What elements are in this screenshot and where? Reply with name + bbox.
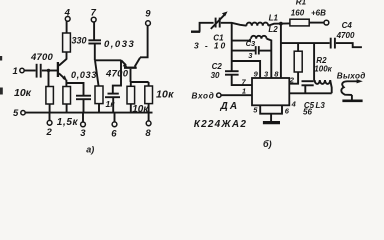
svg-text:1: 1 [13,66,18,77]
terminal 5 [13,108,25,119]
svg-text:L1: L1 [269,14,279,23]
wire [24,70,35,72]
wire to base T1 [42,70,57,72]
terminal Вход [192,91,222,100]
wire to capacitor 4700 (bypass) [113,60,121,93]
svg-text:56: 56 [303,108,312,117]
wire to pin 9 [232,61,260,78]
capacitor C3 [246,39,259,60]
op-amp U1 (IC box К224ЖА2) [242,69,290,115]
terminal Выход (headphone plug) [337,72,366,101]
wire output stub [336,43,362,47]
wire L1 to node [268,23,290,25]
svg-text:4700: 4700 [30,52,53,63]
svg-text:4: 4 [291,99,297,108]
wire to terminal 4 [66,21,68,33]
svg-text:6: 6 [111,129,117,140]
capacitor C4 4700 [331,21,355,48]
svg-text:+6В: +6В [311,8,326,17]
terminal 2 [46,113,53,139]
wire collector up [66,52,68,59]
svg-text:C2: C2 [212,62,223,71]
terminal 9 [145,9,151,26]
wire down from 7 [93,22,95,40]
terminal 1 (input) [13,66,25,77]
svg-text:C4: C4 [342,21,353,30]
svg-text:5: 5 [13,108,19,119]
wire L2 right to pin 3 [267,39,272,78]
antenna stub [191,23,214,32]
scan edge marks [0,56,3,95]
terminal 6 [111,113,117,140]
wire emitter T1 down [65,80,67,87]
node (junction dot) [279,22,283,26]
wire C3 to pin 3 [259,50,271,52]
svg-text:0,033: 0,033 [104,39,135,50]
capacitor 0,033 (emitter bypass) [71,70,97,113]
resistor 1,5k [57,87,79,128]
wire C2 bottom to pin 7 [232,75,252,85]
terminal +6В [311,8,329,25]
svg-text:4700: 4700 [336,31,355,40]
wire to C3 [232,50,255,52]
resistor 330 [63,33,87,52]
resistor R2 100k [294,43,332,74]
svg-text:10к: 10к [14,87,32,99]
capacitor C1 3-10 (trimmer) [194,11,228,50]
svg-text:L2: L2 [268,25,278,34]
svg-text:4700: 4700 [105,68,129,79]
svg-text:3 - 10: 3 - 10 [194,41,227,51]
capacitor C2 30 [211,62,239,80]
terminal 7 [91,7,97,22]
resistor 10k (right) [145,82,174,113]
svg-text:ДА: ДА [220,101,240,112]
svg-text:3: 3 [80,128,86,139]
svg-text:160: 160 [291,8,305,17]
resistor 10k (T2 base) [127,82,149,115]
capacitor 4700 (input) [30,52,53,78]
wire audio line [281,42,330,44]
wire down to node B [94,44,96,61]
svg-text:100к: 100к [314,65,332,74]
wire down to R 1k [95,60,99,86]
svg-text:9: 9 [145,9,151,20]
svg-text:5: 5 [253,106,258,115]
svg-text:10к: 10к [156,88,174,100]
wire down to R 10k [48,71,50,87]
wire pin 4 [289,92,331,94]
svg-text:L3: L3 [316,101,326,110]
svg-text:9: 9 [254,69,259,78]
wire bottom pins 5,6 [260,105,282,113]
svg-text:R2: R2 [316,56,327,65]
svg-text:б): б) [263,139,272,149]
ground [263,114,280,123]
svg-text:3: 3 [264,69,269,78]
wire down to C5/L3 [313,43,315,80]
inductor L1 [246,14,278,26]
svg-text:C3: C3 [246,39,256,48]
node A (junction dot) [47,69,50,72]
svg-text:1,5к: 1,5к [57,117,79,128]
terminal 3 [80,113,86,140]
svg-text:а): а) [86,145,94,155]
IC label ДА К224ЖА2 [194,101,247,130]
terminal 8 [145,113,151,140]
svg-text:30: 30 [211,71,220,80]
svg-text:330: 330 [72,36,87,46]
svg-text:8: 8 [145,128,151,139]
terminal 4 [64,7,71,21]
wire emitter branch right [66,83,83,95]
inductor L3 [315,80,331,110]
transistor T2 (pnp) [121,58,140,82]
svg-text:8: 8 [274,69,279,78]
wire node column [231,23,233,71]
svg-text:6: 6 [285,107,290,116]
capacitor 0,033 (pin 7) [88,39,135,50]
svg-text:Выход: Выход [337,72,366,81]
wire pin 8 [280,24,282,78]
capacitor 4700 (bypass) [105,68,129,112]
resistor 1k [95,86,115,113]
capacitor C5 56 [302,81,315,116]
wire R2 to pin 2 [289,72,298,84]
wire [221,23,247,26]
resistor 10k (left) [14,87,53,113]
svg-text:2: 2 [46,127,53,138]
svg-text:3: 3 [248,51,253,60]
svg-text:К224ЖА2: К224ЖА2 [194,119,247,130]
svg-text:Вход: Вход [192,91,215,100]
wire input to pin 1 [221,94,252,96]
wire to +6B [309,22,324,24]
inductor L2 [251,25,278,39]
wire to L2 [232,39,250,41]
wire L3 to pin 4 line [330,80,332,93]
svg-text:R1: R1 [296,0,307,7]
wire ground bus [25,112,152,114]
svg-text:0,033: 0,033 [71,70,97,80]
node B wire right (T2 emitter feed) [95,59,121,61]
wire base node line [130,81,149,83]
wire collector to terminal 9 [140,26,148,58]
transistor T1 [58,59,67,81]
svg-text:4: 4 [64,7,71,18]
svg-text:1: 1 [242,86,246,95]
resistor R1 160 [290,0,309,26]
